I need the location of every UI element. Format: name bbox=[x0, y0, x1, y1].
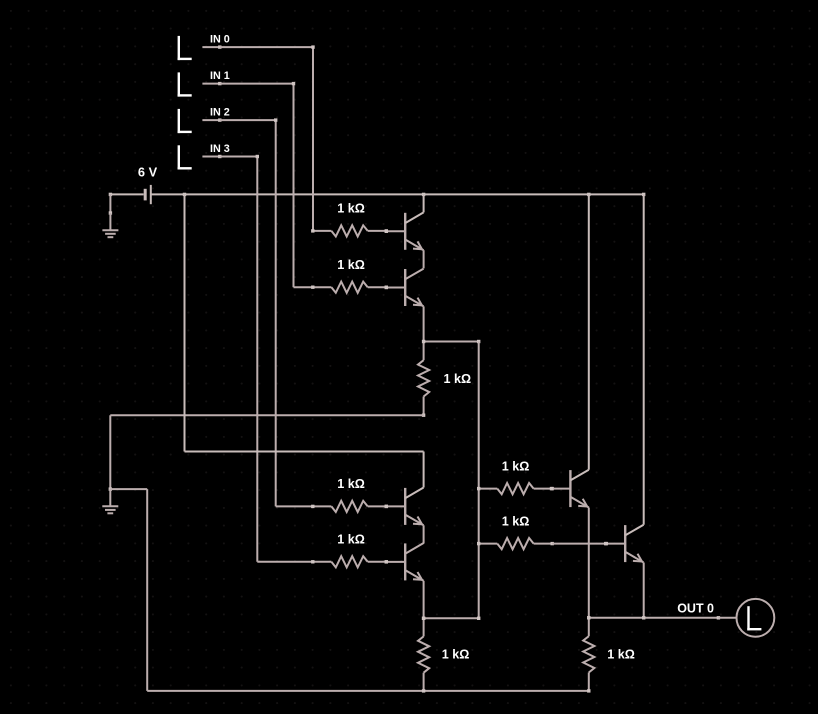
svg-text:IN 2: IN 2 bbox=[210, 107, 230, 119]
resistor R8 1kΩ bbox=[418, 617, 469, 693]
wire IN3 horizontal bbox=[220, 156, 257, 158]
wire OUT node bbox=[589, 617, 719, 619]
resistor R6 1kΩ bbox=[477, 459, 554, 494]
wire Q2 emitter down bbox=[423, 306, 425, 341]
wire bottom nodeA link bbox=[424, 617, 479, 619]
transistor Q3 bbox=[385, 488, 424, 526]
svg-text:1 kΩ: 1 kΩ bbox=[502, 459, 530, 473]
wire IN0 horizontal bbox=[220, 46, 313, 48]
svg-text:IN 0: IN 0 bbox=[210, 34, 230, 46]
wire Q3-emitter to Q4-collector bbox=[423, 525, 425, 543]
svg-text:1 kΩ: 1 kΩ bbox=[337, 202, 365, 216]
wire left vertical bbox=[109, 415, 111, 489]
wire R7-to-Q6 bbox=[552, 543, 606, 545]
wire Q3 collector bbox=[423, 452, 425, 488]
resistor R3 1kΩ bbox=[418, 340, 471, 417]
resistor R2 1kΩ bbox=[311, 258, 388, 293]
wire 6V rail bbox=[151, 193, 644, 195]
wire IN3 vertical bbox=[256, 157, 258, 562]
resistor R9 1kΩ bbox=[583, 616, 635, 693]
wire Q5 emitter down bbox=[588, 508, 590, 618]
logic input IN1 bbox=[178, 70, 230, 96]
ground GND2 bbox=[102, 487, 118, 513]
svg-text:1 kΩ: 1 kΩ bbox=[337, 477, 365, 491]
svg-text:1 kΩ: 1 kΩ bbox=[444, 372, 472, 386]
wire nodeA column bbox=[478, 342, 480, 619]
svg-text:1 kΩ: 1 kΩ bbox=[607, 648, 635, 662]
wire R3-to-left bbox=[110, 414, 423, 416]
svg-text:1 kΩ: 1 kΩ bbox=[337, 258, 365, 272]
wire IN1 vertical bbox=[293, 84, 295, 288]
logic input IN0 bbox=[178, 34, 230, 60]
wire gnd2-to-down-column bbox=[110, 488, 147, 490]
wire down-column bbox=[146, 489, 148, 691]
logic input IN2 bbox=[178, 107, 230, 133]
logic input IN3 bbox=[178, 143, 230, 169]
node rail-T2 bbox=[422, 193, 425, 196]
transistor Q5 bbox=[550, 470, 589, 508]
resistor R5 1kΩ bbox=[257, 532, 388, 567]
node rail-corner bbox=[642, 193, 645, 196]
transistor Q6 bbox=[605, 525, 644, 563]
wire IN1-to-R2 bbox=[294, 286, 313, 288]
transistor Q2 bbox=[385, 269, 424, 307]
wire rail-drop bbox=[184, 194, 186, 451]
wire IN2 horizontal bbox=[220, 119, 276, 121]
wire Q6 collector bbox=[643, 194, 645, 524]
ground GND1 bbox=[102, 194, 118, 237]
resistor R4 1kΩ bbox=[276, 477, 388, 512]
wire IN1 horizontal bbox=[220, 83, 294, 85]
logic output OUT0 bbox=[677, 599, 774, 637]
wire Q5 collector bbox=[588, 194, 590, 469]
transistor Q1 bbox=[385, 212, 424, 250]
svg-text:1 kΩ: 1 kΩ bbox=[337, 532, 365, 546]
node rail-T3 bbox=[587, 193, 590, 196]
svg-text:1 kΩ: 1 kΩ bbox=[502, 514, 530, 528]
wire Q6 emitter down bbox=[643, 563, 645, 618]
wire Q1 collector bbox=[423, 194, 425, 212]
wire bottom rail bbox=[147, 690, 589, 692]
wire IN0 vertical bbox=[312, 47, 314, 231]
svg-text:6 V: 6 V bbox=[138, 165, 158, 180]
wire nodeA horizontal bbox=[424, 341, 479, 343]
wire drop-to-Q3 bbox=[185, 451, 424, 453]
node rail-T1 bbox=[183, 193, 186, 196]
svg-text:OUT 0: OUT 0 bbox=[677, 602, 714, 616]
svg-text:IN 1: IN 1 bbox=[210, 70, 230, 82]
svg-text:IN 3: IN 3 bbox=[210, 143, 230, 155]
battery V1 6 V bbox=[109, 165, 158, 205]
resistor R7 1kΩ bbox=[477, 514, 554, 549]
svg-text:1 kΩ: 1 kΩ bbox=[442, 648, 470, 662]
transistor Q4 bbox=[385, 543, 424, 581]
resistor R1 1kΩ bbox=[311, 202, 388, 237]
wire Q1-emitter to Q2-collector bbox=[423, 250, 425, 268]
wire IN2 vertical bbox=[275, 120, 277, 506]
wire Q4 emitter down bbox=[423, 581, 425, 619]
